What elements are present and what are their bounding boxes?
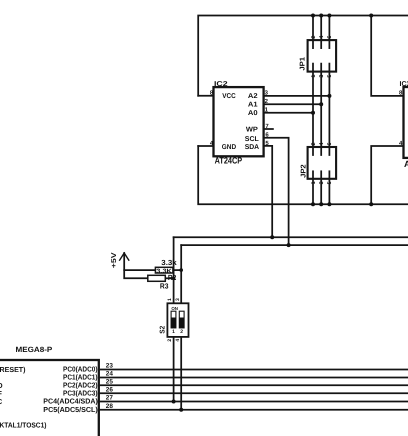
svg-text:JP1: JP1 xyxy=(299,57,306,71)
svg-text:26: 26 xyxy=(106,386,114,393)
svg-text:SCL: SCL xyxy=(245,136,260,143)
svg-text:3: 3 xyxy=(319,75,325,78)
svg-text:R3: R3 xyxy=(160,281,169,290)
svg-text:2: 2 xyxy=(180,329,183,335)
svg-text:2: 2 xyxy=(311,36,317,39)
svg-text:5: 5 xyxy=(327,181,333,184)
svg-text:23: 23 xyxy=(106,363,114,370)
svg-text:JP2: JP2 xyxy=(300,164,307,178)
svg-text:S2: S2 xyxy=(159,326,166,334)
svg-text:1: 1 xyxy=(311,75,317,78)
svg-text:ON: ON xyxy=(171,306,178,311)
svg-text:+5V: +5V xyxy=(111,252,118,268)
svg-text:4: 4 xyxy=(319,36,325,39)
svg-text:3.3k: 3.3k xyxy=(161,258,177,267)
svg-text:AT24CP: AT24CP xyxy=(215,156,243,166)
svg-text:1: 1 xyxy=(167,298,173,301)
svg-text:R2: R2 xyxy=(168,273,176,282)
svg-text:GND: GND xyxy=(222,144,236,151)
svg-text:4: 4 xyxy=(175,339,181,342)
svg-text:3: 3 xyxy=(319,181,325,184)
svg-text:AT24CP: AT24CP xyxy=(404,159,408,169)
svg-text:MEGA8-P: MEGA8-P xyxy=(16,345,53,354)
svg-text:SDA: SDA xyxy=(245,144,259,151)
svg-text:IC3: IC3 xyxy=(400,81,408,88)
svg-text:C: C xyxy=(0,397,2,406)
svg-text:A0: A0 xyxy=(248,110,258,117)
svg-text:3: 3 xyxy=(175,298,181,301)
svg-text:6: 6 xyxy=(327,36,333,39)
svg-text:2: 2 xyxy=(311,143,317,146)
svg-text:VCC: VCC xyxy=(222,93,235,100)
svg-text:24: 24 xyxy=(106,371,114,378)
svg-text:IC2: IC2 xyxy=(214,81,228,88)
svg-text:25: 25 xyxy=(106,378,114,385)
svg-text:28: 28 xyxy=(106,403,114,410)
svg-text:PC5(ADC5/SCL): PC5(ADC5/SCL) xyxy=(43,405,98,414)
svg-text:A2: A2 xyxy=(248,93,258,100)
svg-text:RESET): RESET) xyxy=(0,365,26,374)
svg-text:A1: A1 xyxy=(248,102,258,109)
svg-text:WP: WP xyxy=(246,127,258,134)
svg-text:6: 6 xyxy=(327,143,333,146)
svg-text:5: 5 xyxy=(327,75,333,78)
svg-text:1: 1 xyxy=(172,329,175,335)
svg-text:2: 2 xyxy=(167,339,173,342)
svg-text:27: 27 xyxy=(106,395,114,402)
svg-text:KTAL1/TOSC1): KTAL1/TOSC1) xyxy=(0,420,47,429)
svg-text:1: 1 xyxy=(311,181,317,184)
svg-text:4: 4 xyxy=(319,143,325,146)
